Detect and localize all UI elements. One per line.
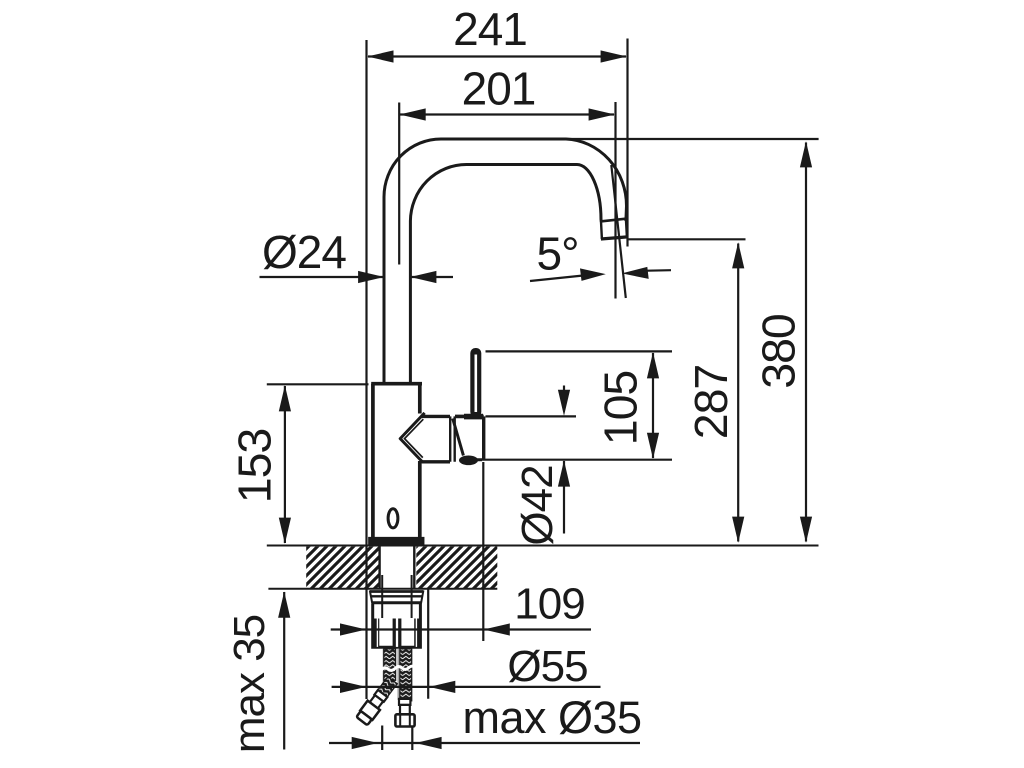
201 left arrow <box>400 108 426 120</box>
153 dim line <box>284 386 286 543</box>
spout outer contour <box>384 139 627 385</box>
105/o42 ext bottom <box>478 459 672 461</box>
105 bottom arrow <box>647 433 659 459</box>
maxo35 right arrow <box>415 737 441 749</box>
svg-text:Ø24: Ø24 <box>262 226 346 278</box>
svg-text:max Ø35: max Ø35 <box>462 692 641 743</box>
counter hole left edge <box>378 546 380 589</box>
shank tube lines <box>382 575 411 618</box>
body right edge upper <box>418 384 422 414</box>
241 left arrow <box>367 50 393 62</box>
201 dim line <box>400 113 614 115</box>
5deg right arrow <box>622 267 649 279</box>
153 bottom arrow <box>279 518 291 544</box>
countertop hatch left <box>306 547 379 589</box>
labels <box>262 3 578 280</box>
svg-text:Ø42: Ø42 <box>513 465 562 545</box>
241 ext right <box>626 39 628 247</box>
left hose fitting <box>356 689 389 726</box>
o42 ext top <box>486 415 577 417</box>
side cone outer diagonals <box>400 413 424 463</box>
maxo35 dim line <box>329 742 640 744</box>
5deg left arrow <box>580 268 606 281</box>
287 dim line <box>737 244 739 542</box>
287 top arrow <box>732 242 744 268</box>
washer stack <box>370 590 424 593</box>
380 top ext line <box>566 138 819 140</box>
109 ext right <box>482 462 484 641</box>
right hose fitting nut <box>395 714 414 726</box>
aerator bottom line <box>601 237 628 239</box>
oval logo <box>388 509 398 528</box>
body shoulder <box>371 382 422 386</box>
svg-text:241: 241 <box>453 3 527 55</box>
o24 dim line <box>260 276 454 278</box>
o55 right arrow <box>429 681 455 693</box>
joint ring lines <box>450 416 455 461</box>
counter bottom line <box>268 588 497 590</box>
153 ext top <box>267 383 369 385</box>
o42 lower arrow <box>558 460 570 486</box>
svg-text:201: 201 <box>462 63 536 115</box>
153 top arrow <box>279 385 291 411</box>
svg-text:Ø55: Ø55 <box>507 642 587 691</box>
svg-text:5°: 5° <box>537 228 579 280</box>
109 dim line <box>331 628 591 630</box>
arrowheads <box>278 50 812 749</box>
maxo35 ref ticks <box>382 726 412 751</box>
max35 top arrow <box>278 592 290 618</box>
base flange <box>369 538 424 545</box>
mounting nut <box>373 604 421 647</box>
cartridge cylinder right <box>482 416 485 459</box>
o42 dim upper shaft <box>563 386 565 399</box>
maxo35 left arrow <box>352 737 378 749</box>
svg-text:105: 105 <box>595 371 647 446</box>
241 dim line <box>368 55 626 57</box>
aerator top line <box>601 219 626 222</box>
counter surface line <box>267 545 819 547</box>
201/outlet ext right <box>614 102 616 299</box>
left hose braid upper <box>384 649 396 681</box>
right hose fitting connector <box>399 699 410 705</box>
cartridge interior diagonal <box>453 419 464 456</box>
5deg shafts <box>530 270 671 281</box>
svg-text:109: 109 <box>514 580 584 629</box>
o42 dim lower shaft <box>563 461 565 534</box>
105 ext top <box>486 350 673 352</box>
lever handle <box>470 348 481 417</box>
287 bottom arrow <box>732 517 744 543</box>
side cone bottom edge <box>422 460 450 463</box>
o24 right arrow <box>410 271 436 283</box>
spout inner contour <box>410 164 601 385</box>
right hose braid <box>400 649 412 701</box>
counter hole right edge <box>413 546 415 589</box>
o24 left arrow <box>358 271 384 283</box>
380 dim line <box>805 143 807 542</box>
o55 dim line <box>332 686 601 688</box>
side cone inner diagonals <box>405 419 424 457</box>
109 left arrow <box>340 623 366 635</box>
380 top arrow <box>800 141 812 167</box>
o55 left arrow <box>340 681 366 693</box>
ext line far left <box>365 40 367 699</box>
201 ext left <box>398 103 400 265</box>
o55 ext right <box>427 590 429 699</box>
380 bottom arrow <box>800 517 812 543</box>
stud bars <box>374 619 420 647</box>
105 dim line <box>652 353 654 458</box>
cartridge cylinder top <box>455 415 484 419</box>
o42 upper arrow <box>558 390 570 416</box>
max35 dim line <box>283 592 285 750</box>
svg-text:153: 153 <box>229 429 281 504</box>
105 top arrow <box>647 352 659 378</box>
5deg tilted line <box>611 165 626 298</box>
side cone top edge <box>421 415 451 418</box>
109 right arrow <box>484 623 510 635</box>
left hose braid angled <box>378 677 397 697</box>
241 right arrow <box>601 50 627 62</box>
hose break squiggle <box>381 666 415 670</box>
287 ext line <box>629 238 746 240</box>
cartridge bottom blob <box>459 456 478 466</box>
aerator sides <box>601 219 627 239</box>
cartridge cylinder bottom <box>461 458 482 461</box>
countertop hatch right <box>416 547 497 589</box>
body left edge <box>371 384 375 538</box>
gray hose guide lines <box>383 649 398 700</box>
body right edge lower <box>418 461 422 538</box>
svg-text:max 35: max 35 <box>225 615 274 753</box>
svg-text:380: 380 <box>753 314 805 389</box>
201 right arrow <box>589 108 615 120</box>
svg-text:287: 287 <box>685 365 737 440</box>
